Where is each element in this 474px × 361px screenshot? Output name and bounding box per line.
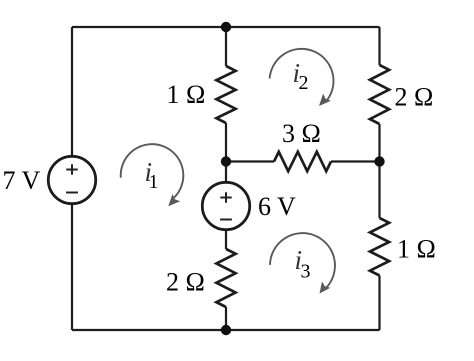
wire right branch mid: [378, 124, 380, 218]
node dot right middle: [374, 156, 384, 166]
svg-text:1 Ω: 1 Ω: [397, 235, 436, 264]
wire bottom: [72, 329, 380, 331]
mesh arrow i1: [121, 144, 184, 198]
svg-text:2 Ω: 2 Ω: [395, 82, 434, 111]
wire middle branch upper: [225, 27, 227, 66]
svg-text:2 Ω: 2 Ω: [166, 268, 205, 297]
wire 3-ohm left lead: [226, 160, 274, 162]
svg-text:3: 3: [301, 261, 311, 283]
mesh arrow i2: [270, 49, 334, 100]
svg-text:3 Ω: 3 Ω: [282, 119, 321, 148]
svg-text:1 Ω: 1 Ω: [167, 80, 206, 109]
resistor R4 2ohm bottom middle: [216, 249, 235, 307]
node dot bottom middle: [221, 325, 231, 335]
resistor R5 1ohm bottom right: [370, 218, 389, 276]
wire left: [71, 27, 73, 330]
svg-text:7 V: 7 V: [3, 166, 41, 195]
node dot middle: [221, 156, 231, 166]
voltage source V2 6V: [202, 182, 249, 229]
resistor R1 1ohm top middle: [216, 66, 235, 123]
wire right branch lower: [378, 276, 380, 331]
wire middle branch mid: [225, 123, 227, 249]
wire top: [72, 26, 380, 28]
voltage source V1 7V: [48, 156, 95, 203]
svg-text:2: 2: [299, 72, 309, 94]
wire right branch upper: [378, 27, 380, 65]
svg-text:6 V: 6 V: [258, 192, 296, 221]
wire middle branch lower: [225, 307, 227, 330]
wire 3-ohm right lead: [331, 160, 380, 162]
resistor R3 3ohm middle horizontal: [274, 152, 331, 171]
mesh arrow i3: [270, 233, 335, 288]
resistor R2 2ohm top right: [370, 65, 389, 124]
svg-text:1: 1: [149, 171, 159, 193]
node dot top middle: [221, 22, 231, 32]
